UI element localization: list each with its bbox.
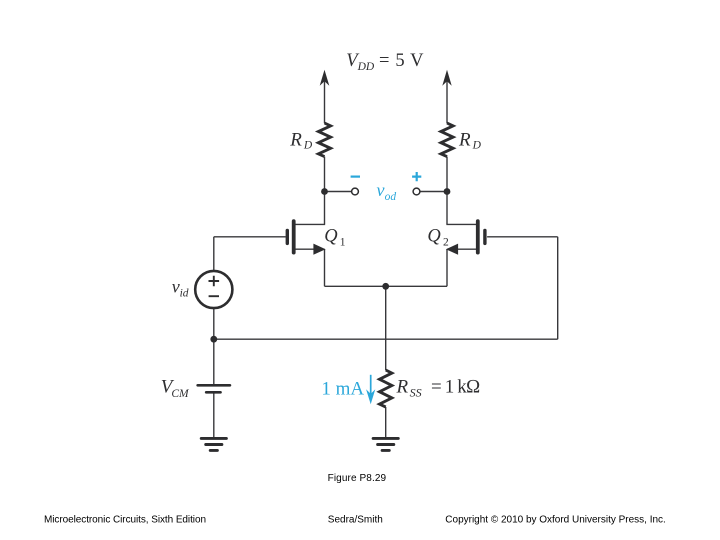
wire: Q2 source lead <box>447 248 478 250</box>
ground (center, under RSS) <box>373 438 398 450</box>
current arrow: 1 mA down arrow (cyan) <box>366 375 375 405</box>
svg-text:1 mA: 1 mA <box>321 379 364 400</box>
label: plus polarity (cyan) <box>412 172 421 181</box>
wire: RSS bottom to ground <box>385 407 387 437</box>
wire: right branch resistor-bottom to Q2 drain corner <box>446 157 448 225</box>
svg-text:DD: DD <box>357 61 375 73</box>
node: common source junction <box>382 283 389 290</box>
svg-text:2: 2 <box>443 236 449 248</box>
wire: Q1 source lead <box>296 248 325 250</box>
wire: common node down to RSS top <box>385 286 387 370</box>
node: right output junction <box>444 188 451 195</box>
wire: stub from right node to plus output terminal <box>420 191 447 193</box>
VDD arrowhead right <box>442 70 451 86</box>
transistor Q1: gate bar <box>286 230 289 243</box>
transistor Q2: channel bar <box>476 221 480 252</box>
svg-text:SS: SS <box>410 386 422 400</box>
terminal: plus output open circle <box>413 188 420 195</box>
svg-text:= 5 V: = 5 V <box>379 51 424 71</box>
wire: junction down to VCM battery <box>213 339 215 384</box>
svg-text:v: v <box>377 180 385 200</box>
transistor Q1: source arrowhead <box>313 244 325 255</box>
wire: Q2 source down to common node row <box>446 249 448 286</box>
battery VCM: short plate <box>206 391 220 394</box>
source vid: minus sign <box>209 295 219 297</box>
node: common-mode junction at vid bottom <box>210 336 217 343</box>
wire: Q2 gate right column down <box>557 237 559 339</box>
svg-text:= 1 kΩ: = 1 kΩ <box>431 377 481 398</box>
wire: Q1 source down to common node row <box>324 249 326 286</box>
svg-text:D: D <box>303 140 313 152</box>
svg-text:Copyright © 2010 by Oxford Uni: Copyright © 2010 by Oxford University Pr… <box>445 515 666 526</box>
svg-text:1: 1 <box>340 236 346 248</box>
svg-text:od: od <box>385 191 397 203</box>
wire: VCM battery to ground <box>213 393 215 437</box>
wire: bottom feedback horizontal to junction <box>214 338 558 340</box>
wire: VDD arrow shaft left <box>324 80 326 123</box>
VDD arrowhead left <box>320 70 330 86</box>
svg-text:Q: Q <box>427 227 441 247</box>
svg-text:Sedra/Smith: Sedra/Smith <box>328 515 383 526</box>
wire: Q1 gate lead <box>214 236 286 238</box>
node: left output junction <box>321 188 328 195</box>
resistor RSS <box>380 370 392 407</box>
wire: Q2 gate lead <box>487 236 558 238</box>
battery VCM: long plate <box>198 384 230 387</box>
wire: gate of Q1 down to vid source <box>213 237 215 271</box>
svg-text:id: id <box>180 287 189 299</box>
transistor Q2: gate bar <box>483 230 486 243</box>
svg-text:R: R <box>289 129 302 150</box>
svg-text:R: R <box>396 377 409 398</box>
source vid: circle <box>195 271 232 308</box>
svg-text:Microelectronic Circuits, Sixt: Microelectronic Circuits, Sixth Edition <box>44 515 206 526</box>
wire: stub from left node to minus output terminal <box>325 191 352 193</box>
svg-text:Q: Q <box>324 227 338 247</box>
ground (left, under VCM) <box>201 438 226 450</box>
svg-text:CM: CM <box>171 388 190 400</box>
wire: Q2 drain lead <box>446 223 477 225</box>
resistor RD right <box>441 123 453 157</box>
svg-text:R: R <box>458 129 471 150</box>
source vid: plus sign <box>209 276 220 287</box>
wire: common source horizontal <box>325 285 448 287</box>
transistor Q1: channel bar <box>292 221 296 252</box>
svg-text:v: v <box>172 277 180 297</box>
resistor RD left <box>318 123 330 157</box>
transistor Q2: source arrowhead <box>446 244 458 255</box>
wire: Q1 drain lead <box>296 223 326 225</box>
wire: left branch resistor-bottom to Q1 drain corner <box>324 157 326 225</box>
svg-text:D: D <box>472 140 482 152</box>
label: minus polarity (cyan) <box>351 176 360 178</box>
wire: VDD arrow shaft right <box>446 80 448 123</box>
wire: vid source to common-mode junction <box>213 308 215 339</box>
terminal: minus output open circle <box>352 188 359 195</box>
svg-text:Figure P8.29: Figure P8.29 <box>328 473 387 484</box>
